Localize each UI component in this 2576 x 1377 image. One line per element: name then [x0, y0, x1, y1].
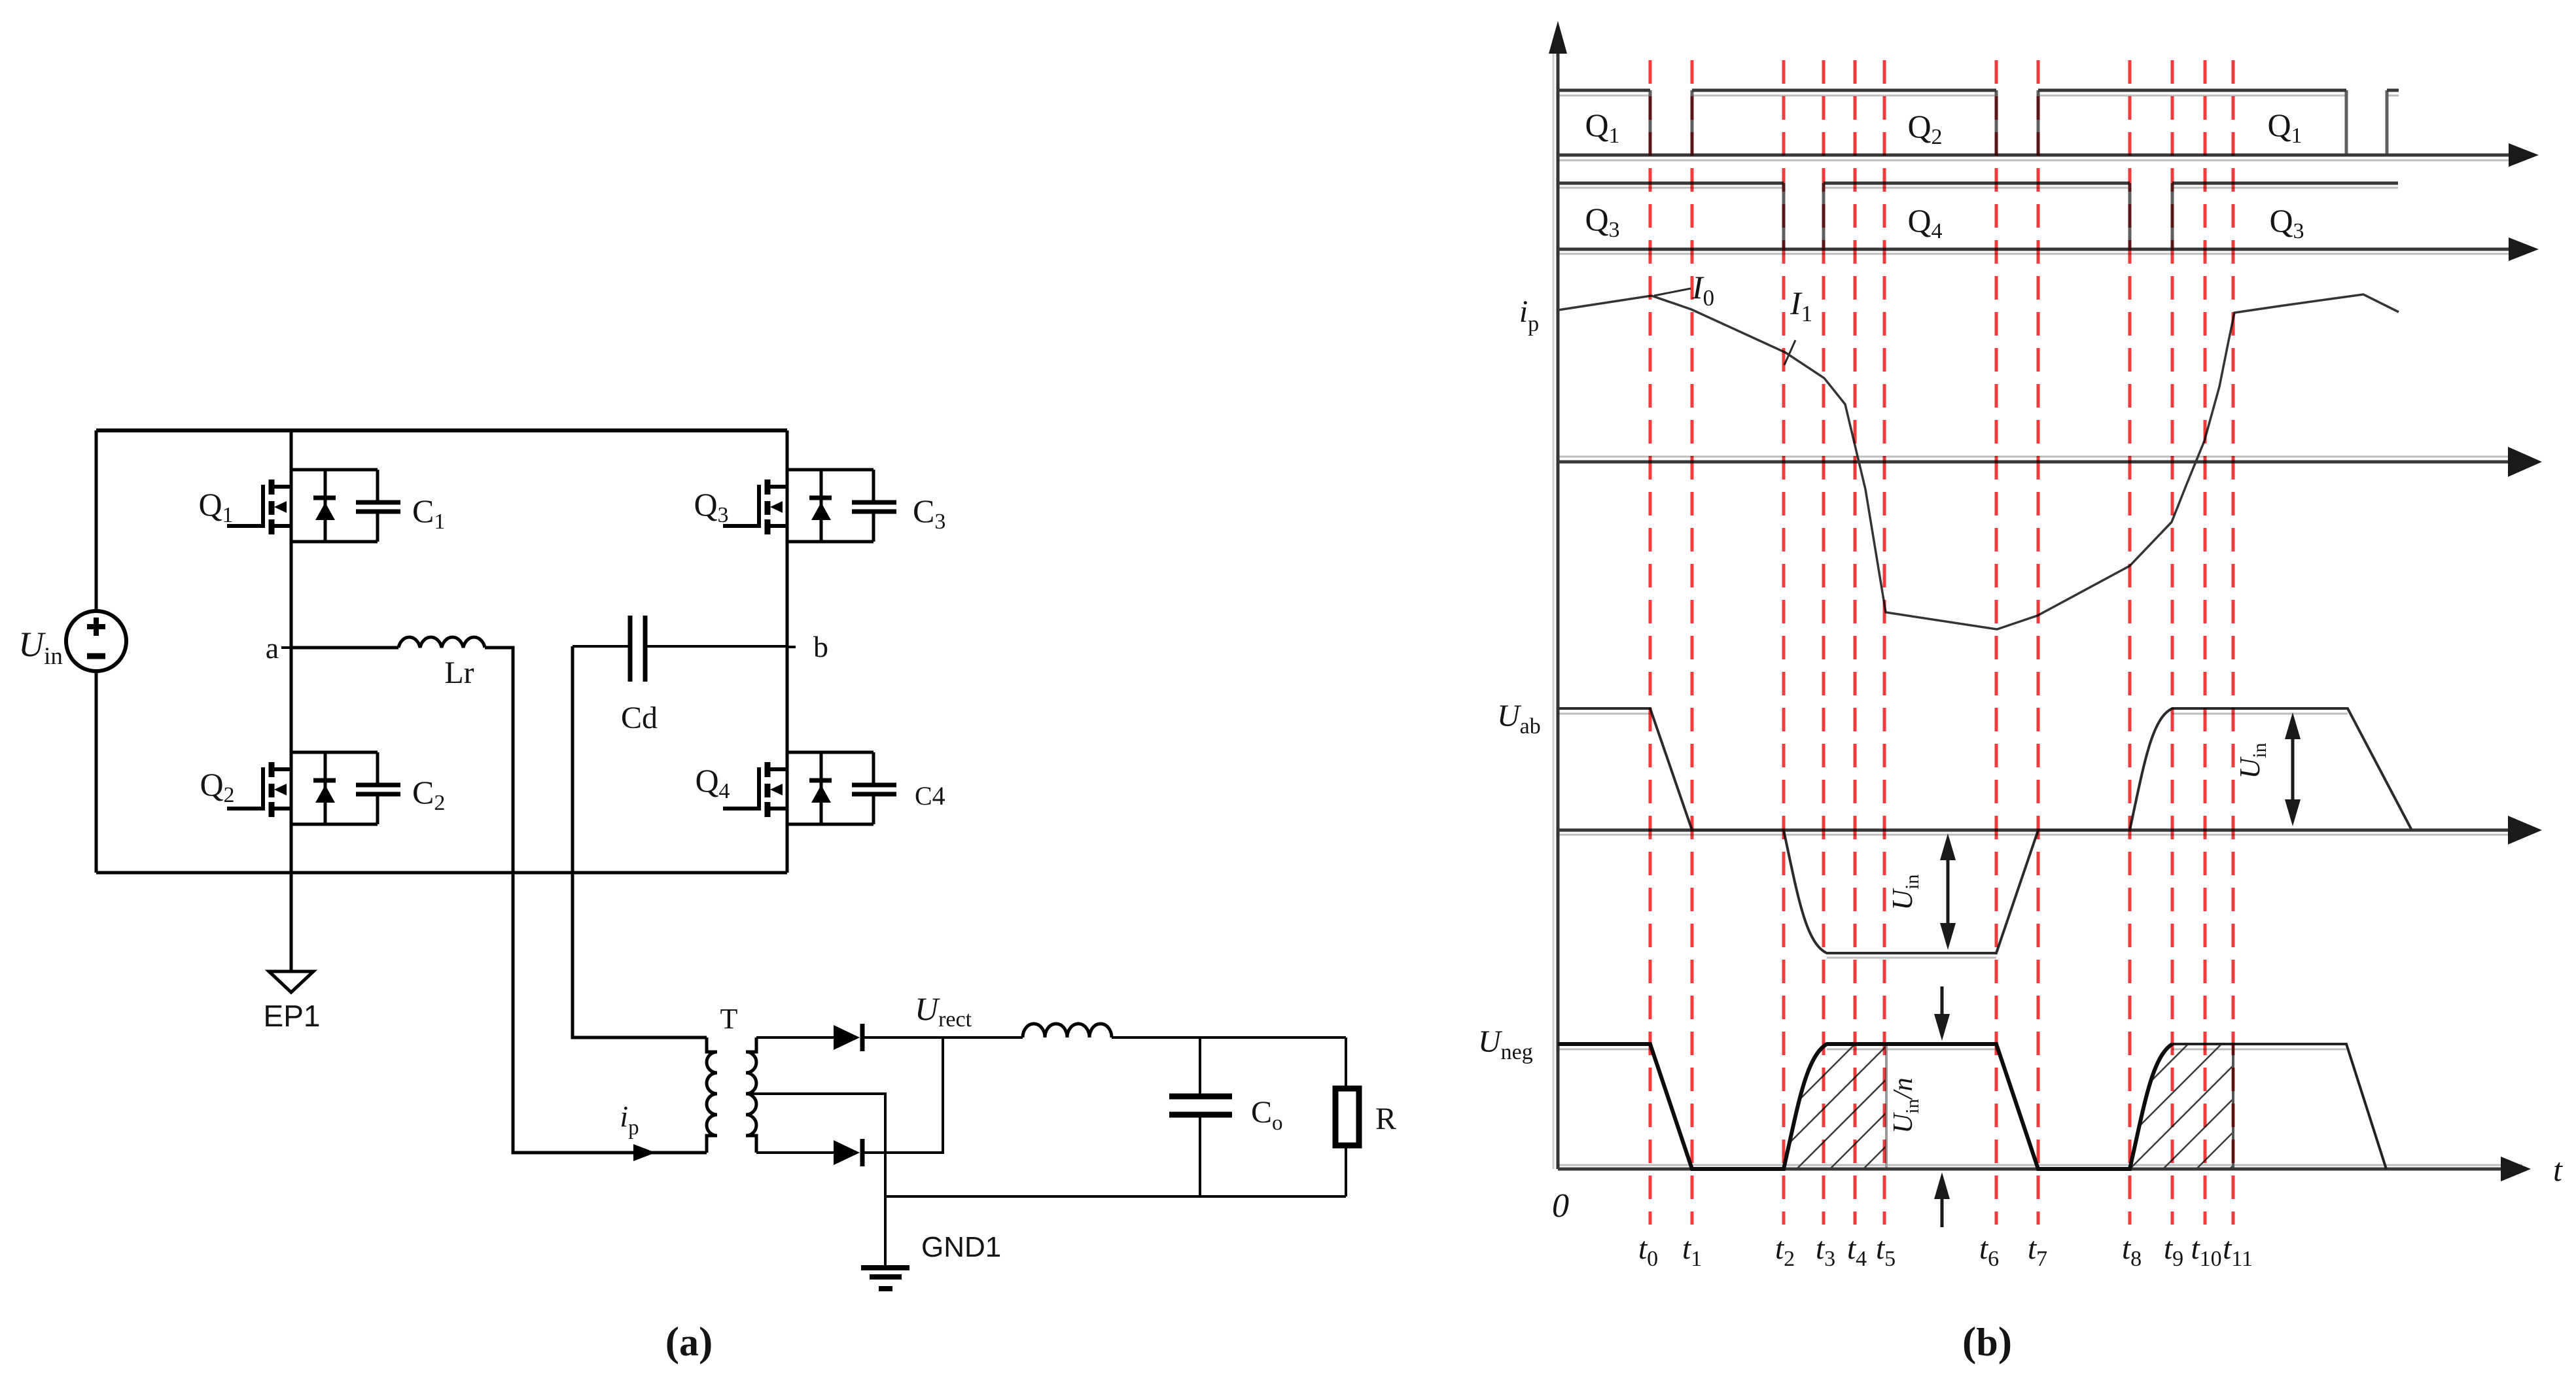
dimension arrow Uin/n lower — [1934, 1172, 1950, 1227]
resistor R — [1335, 1037, 1396, 1196]
axis ip zero line — [1558, 447, 2542, 477]
wire Lr down to primary — [485, 648, 707, 1153]
wire node a to Lr — [291, 646, 398, 650]
inductor Lr — [398, 637, 485, 690]
vertical axis — [1549, 21, 1567, 1169]
wire center tap — [746, 1094, 885, 1266]
transistor Q4 — [695, 752, 896, 824]
wire top rail — [96, 428, 787, 432]
svg-text:b: b — [813, 630, 828, 663]
t6 line — [1995, 60, 1998, 1225]
capacitor Cd — [573, 616, 787, 735]
hatch boundary t11 — [2232, 1044, 2234, 1169]
t9 line — [2171, 60, 2174, 1225]
dimension arrow Uin positive pulse — [2234, 712, 2301, 826]
transistor Q1 — [198, 470, 400, 542]
t5 line — [1883, 60, 1886, 1225]
t0 line — [1649, 60, 1652, 1225]
axis Uab zero line — [1558, 816, 2542, 845]
wire right bridge leg — [786, 430, 789, 873]
inductor Lo — [1023, 1024, 1112, 1037]
transistor Q3 — [694, 470, 896, 542]
hatch boundary t5 — [1885, 1044, 1888, 1169]
t3 line — [1822, 60, 1826, 1225]
svg-text:a: a — [266, 631, 279, 665]
svg-text:EP1: EP1 — [264, 999, 321, 1033]
dimension arrow Uin/n upper — [1934, 986, 1950, 1041]
t8 line — [2128, 60, 2132, 1225]
wire D2 to Urect node — [862, 1037, 943, 1153]
svg-text:0: 0 — [1552, 1187, 1569, 1225]
transformer T — [707, 1003, 756, 1153]
label I0 with leader — [1654, 269, 1714, 311]
svg-text:C4: C4 — [915, 781, 945, 811]
diode D1 — [834, 1024, 862, 1051]
svg-text:GND1: GND1 — [921, 1231, 1001, 1263]
gate waveform Q3/Q4 row — [1558, 183, 2539, 261]
hatched area 1 — [1784, 1044, 1886, 1169]
svg-text:t: t — [2553, 1151, 2563, 1188]
svg-text:(a): (a) — [665, 1318, 713, 1365]
red dashed timing lines t0..t11 — [1650, 60, 2233, 1225]
svg-text:Lr: Lr — [444, 655, 474, 690]
time axis — [1558, 1151, 2563, 1188]
node b — [787, 630, 828, 663]
dimension arrow Uin negative pulse — [1886, 833, 1956, 950]
t7 line — [2037, 60, 2040, 1225]
ground GND1 — [861, 1231, 1001, 1289]
wire left bridge leg — [290, 430, 293, 970]
node Urect — [862, 990, 1023, 1037]
t4 line — [1854, 60, 1857, 1225]
shadow echo lines — [1553, 39, 2522, 1169]
wire left branch — [95, 430, 98, 873]
t2 line — [1782, 60, 1786, 1225]
capacitor Co — [1169, 1037, 1283, 1196]
voltage source Uin — [18, 611, 126, 671]
gate waveform Q1/Q2 row — [1558, 90, 2539, 167]
wire output bottom — [885, 1195, 1346, 1198]
t11 line — [2232, 60, 2235, 1225]
waveform ip — [1558, 294, 2399, 629]
wire Cd down to primary top — [573, 646, 707, 1037]
waveform Uneg — [1558, 1044, 2172, 1169]
node a — [266, 631, 291, 665]
time labels t0..t11 — [1638, 1231, 2253, 1271]
arrow EP1 — [264, 971, 321, 1033]
label I1 with leader — [1784, 285, 1812, 365]
wire secondary bottom — [756, 1151, 834, 1154]
diode D2 — [834, 1139, 862, 1166]
transistor Q2 — [200, 752, 400, 824]
current arrow ip — [620, 1100, 656, 1161]
waveform Uab — [1558, 708, 2412, 953]
wire output top — [1112, 1036, 1346, 1039]
t1 line — [1691, 60, 1694, 1225]
hatched area 2 — [2130, 1044, 2233, 1169]
svg-text:Cd: Cd — [621, 701, 658, 735]
wire bottom rail — [96, 871, 787, 875]
svg-text:T: T — [720, 1003, 738, 1035]
t10 line — [2204, 60, 2207, 1225]
svg-text:R: R — [1375, 1102, 1396, 1136]
wire secondary top — [756, 1036, 834, 1039]
svg-text:(b): (b) — [1962, 1318, 2012, 1365]
